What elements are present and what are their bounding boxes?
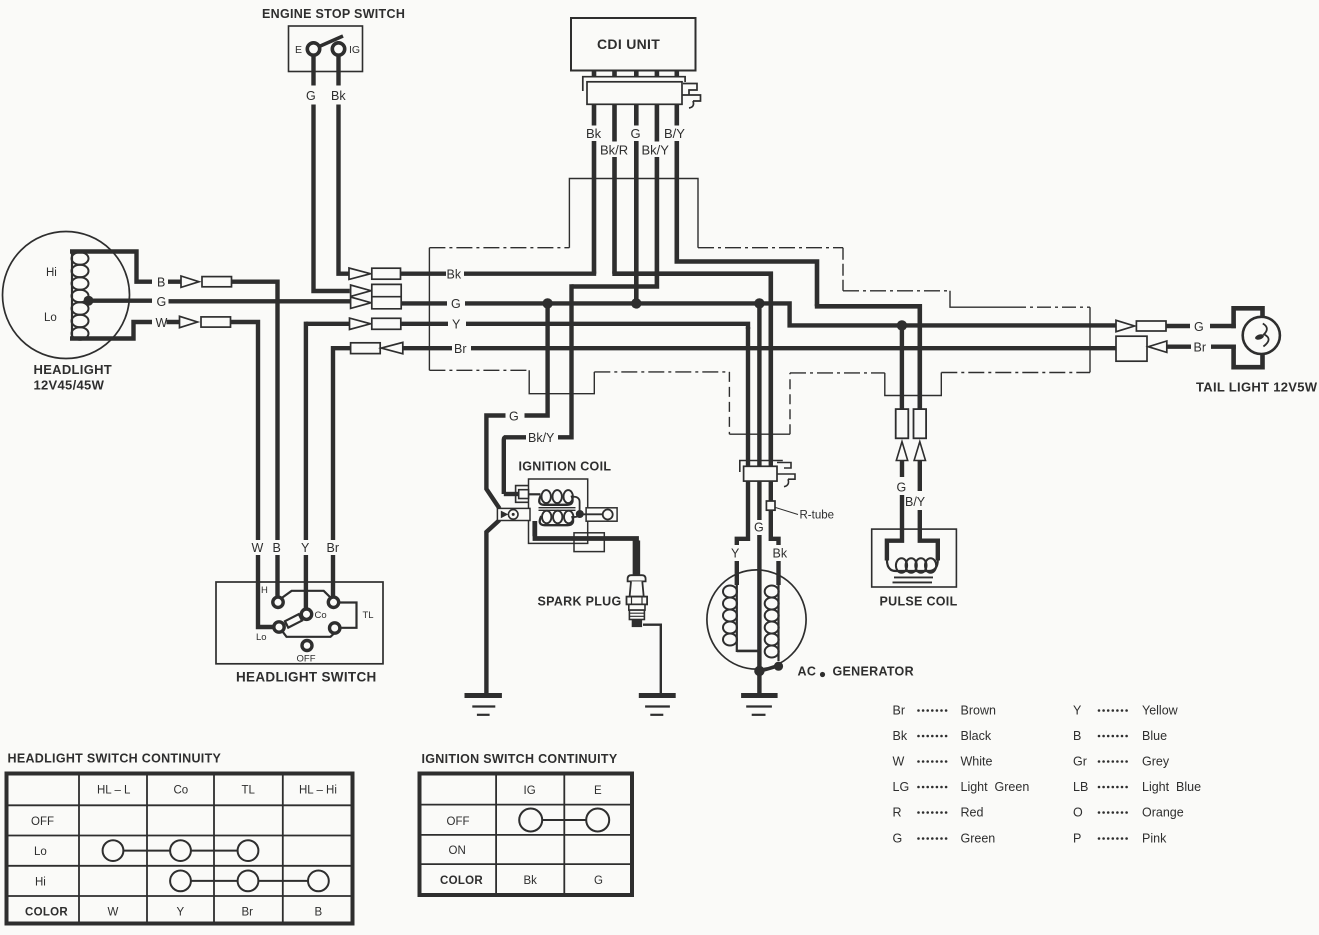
svg-text:Bk: Bk [331, 89, 346, 103]
ignition coil primary winding [529, 493, 541, 495]
wire G generator lead [757, 303, 761, 672]
connector arrow W [180, 316, 198, 327]
svg-text:OFF: OFF [297, 654, 316, 665]
svg-text:COLOR: COLOR [25, 907, 68, 919]
switch terminal Lo [274, 622, 284, 632]
switch link Lo bottom [282, 631, 335, 637]
wire Bk from engine stop switch [339, 56, 349, 274]
switch link TL bracket [338, 603, 356, 628]
svg-text:Light Green: Light Green [961, 780, 1030, 794]
generator junction link [761, 666, 779, 671]
svg-text:W: W [156, 316, 168, 330]
svg-text:TL: TL [363, 610, 374, 621]
spark plug hex [627, 597, 648, 605]
connector rect Bk (center) [372, 268, 401, 279]
wire Bk/Y into terminal [504, 492, 518, 496]
svg-text:O: O [1073, 806, 1083, 820]
CDI wire Bk (pin1) [592, 104, 597, 273]
wire Br to switch [331, 346, 335, 598]
R-tube pointer [776, 508, 799, 515]
svg-text:12V45/45W: 12V45/45W [34, 378, 105, 393]
CDI unit box [571, 18, 696, 71]
svg-text:Black: Black [961, 729, 992, 743]
junction dot G-ignition [542, 298, 552, 308]
ignition coil secondary winding [542, 511, 573, 524]
connector arrow Br (tail) [1148, 341, 1167, 352]
OFF continuity line [531, 819, 598, 821]
ignition coil mounting bar [497, 508, 530, 520]
svg-text:Yellow: Yellow [1142, 704, 1179, 718]
switch terminal OFF [302, 641, 312, 651]
svg-text:IG: IG [524, 785, 536, 797]
harness boundary lower [428, 248, 430, 371]
engine stop switch terminal E [307, 43, 319, 55]
CDI pin stubs [594, 71, 677, 78]
wire Bk/R to generator [612, 272, 773, 461]
ground (spark plug) [639, 693, 676, 698]
svg-text:E: E [594, 785, 602, 797]
mounting lug eyelet [508, 510, 518, 520]
wire Bk generator lead [769, 458, 779, 585]
svg-text:Y: Y [731, 547, 740, 561]
wire G to tail light [1166, 324, 1236, 328]
svg-text:P: P [1073, 832, 1081, 846]
spark plug cap [628, 575, 646, 581]
wire G pulse lead [900, 325, 904, 409]
connector rect Y (center) [372, 318, 401, 329]
svg-text:B: B [315, 907, 323, 919]
svg-text:Br: Br [454, 342, 467, 356]
wire G bus (headlight to connector) [89, 299, 352, 304]
headlight switch continuity table [7, 774, 353, 924]
svg-text:PULSE COIL: PULSE COIL [880, 595, 958, 609]
harness boundary upper [429, 247, 569, 249]
svg-text:IG: IG [349, 44, 360, 56]
svg-text:CDI UNIT: CDI UNIT [597, 36, 660, 52]
svg-text:G: G [1194, 320, 1204, 334]
svg-text:Br: Br [893, 704, 906, 718]
svg-text:Brown: Brown [961, 704, 996, 718]
tail light filament [1263, 324, 1269, 347]
svg-text:B: B [1073, 729, 1081, 743]
svg-text:Bk/Y: Bk/Y [528, 431, 555, 445]
switch terminal Co [301, 609, 311, 619]
ignition coil HT terminal bar [586, 508, 617, 521]
svg-text:Light Blue: Light Blue [1142, 780, 1201, 794]
headlight coil loops [72, 252, 89, 339]
svg-text:B/Y: B/Y [905, 495, 926, 509]
wire Bk bus [401, 272, 597, 276]
secondary to spark plug cable [533, 521, 639, 539]
svg-text:OFF: OFF [447, 816, 470, 828]
svg-text:Bk: Bk [586, 126, 602, 141]
svg-text:R: R [893, 806, 902, 820]
Hi continuity circles [170, 871, 191, 892]
svg-text:Bk: Bk [893, 729, 908, 743]
generator connector body [744, 466, 777, 481]
svg-text:G: G [509, 409, 519, 423]
svg-text:W: W [108, 907, 119, 919]
svg-text:Lo: Lo [44, 312, 57, 324]
svg-text:Lo: Lo [34, 846, 47, 858]
headlight G junction dot [84, 296, 94, 306]
svg-text:R-tube: R-tube [800, 510, 835, 522]
OFF continuity circles [519, 809, 542, 832]
wire Y bus [306, 322, 750, 329]
svg-text:Y: Y [301, 541, 310, 555]
connector rect Br (tail) [1116, 336, 1147, 361]
pulse coil box [872, 529, 957, 587]
pulse coil core [893, 577, 934, 582]
wire G from engine stop switch [314, 56, 350, 292]
mounting lug arrow [501, 511, 509, 519]
svg-text:Hi: Hi [35, 876, 46, 888]
svg-text:Bk/R: Bk/R [600, 143, 628, 158]
headlight switch box [216, 582, 383, 664]
svg-text:G: G [893, 832, 903, 846]
spark plug tip [632, 620, 642, 628]
ignition coil box [529, 479, 588, 543]
generator connector latch [777, 463, 795, 487]
svg-text:IGNITION COIL: IGNITION COIL [519, 460, 612, 474]
pulse G connector arrow [896, 442, 907, 461]
spark plug ground wire [643, 625, 661, 694]
connector arrow G (tail) [1116, 320, 1135, 331]
generator left coil bottom link [737, 650, 760, 653]
wire G pulse lower [887, 461, 904, 561]
svg-text:G: G [306, 89, 316, 103]
switch terminal Hi [273, 597, 283, 607]
svg-text:G: G [754, 521, 764, 535]
spark plug thread [629, 610, 644, 619]
svg-text:Blue: Blue [1142, 729, 1167, 743]
Lo continuity circles [103, 840, 124, 861]
svg-text:Red: Red [961, 806, 984, 820]
svg-text:AC: AC [798, 665, 817, 679]
connector double rect G (center) [372, 284, 401, 308]
svg-text:B: B [157, 276, 165, 290]
connector arrow Bk (center) [349, 268, 371, 279]
CDI wire G (pin3) [634, 104, 639, 303]
wire G down to ignition coil [484, 303, 550, 694]
svg-text:G: G [897, 481, 907, 495]
wire Br bus [333, 346, 1116, 350]
wire B to switch [168, 280, 278, 599]
svg-text:B: B [273, 541, 281, 555]
svg-text:Br: Br [242, 907, 254, 919]
headlight coil spine [71, 251, 73, 339]
spark plug insulator [630, 581, 644, 596]
tail light bulb [1243, 317, 1280, 354]
ignition coil core [539, 508, 576, 511]
svg-text:TAIL LIGHT 12V5W: TAIL LIGHT 12V5W [1196, 380, 1318, 395]
svg-text:LG: LG [893, 780, 910, 794]
svg-text:E: E [295, 44, 302, 56]
svg-text:LB: LB [1073, 780, 1088, 794]
svg-text:GENERATOR: GENERATOR [833, 665, 914, 679]
ignition switch continuity table [420, 774, 633, 896]
ignition coil primary terminal [516, 486, 529, 503]
CDI connector latch [682, 84, 701, 109]
svg-text:W: W [893, 755, 905, 769]
generator right coil [777, 585, 779, 661]
svg-text:Lo: Lo [256, 632, 267, 643]
ground (generator) [741, 693, 778, 698]
wire B/Y pulse lower [918, 461, 938, 561]
primary-secondary junction [573, 497, 603, 517]
svg-text:Bk: Bk [524, 875, 538, 887]
HT terminal circle [603, 510, 613, 520]
svg-text:Br: Br [1194, 341, 1207, 355]
pulse coil winding [896, 558, 936, 572]
switch terminal TL bottom [330, 623, 340, 633]
connector rect Br (center) [351, 343, 381, 354]
pulse B/Y connector arrow [914, 442, 925, 461]
wire Y generator lead [737, 327, 748, 585]
ground (ignition coil) [465, 693, 502, 698]
wire Bk/Y down to ignition coil [504, 284, 574, 494]
wire B/Y pulse lead [918, 407, 922, 411]
generator main junction dot [754, 666, 764, 676]
svg-text:G: G [631, 126, 641, 141]
wire B from headlight Hi [70, 252, 152, 284]
connector arrow Br (center) [381, 342, 403, 353]
svg-text:HEADLIGHT: HEADLIGHT [34, 362, 113, 377]
generator ground lead [757, 671, 761, 694]
svg-text:G: G [451, 297, 461, 311]
junction dot G-pulse [897, 320, 907, 330]
svg-text:G: G [594, 875, 603, 887]
Hi continuity line [181, 880, 319, 882]
svg-text:Co: Co [174, 785, 189, 797]
junction dot G-CDI [631, 298, 641, 308]
color legend [893, 704, 1202, 846]
connector double arrow G (center) [351, 285, 371, 308]
svg-text:SPARK PLUG: SPARK PLUG [538, 595, 622, 609]
svg-text:Gr: Gr [1073, 755, 1087, 769]
tail light housing [1234, 308, 1263, 367]
junction dot G-generator [754, 298, 764, 308]
switch link Hi to TL [281, 591, 332, 599]
svg-text:W: W [252, 541, 264, 555]
AC generator circle [707, 570, 806, 669]
svg-text:COLOR: COLOR [440, 875, 483, 887]
svg-text:Bk: Bk [773, 547, 788, 561]
svg-text:Pink: Pink [1142, 832, 1167, 846]
pulse B/Y connector rect [914, 409, 927, 438]
switch wiper contact [285, 614, 302, 627]
CDI wire Bk/Y (pin4) [572, 104, 660, 288]
svg-text:Br: Br [327, 541, 340, 555]
CDI wire Bk/R (pin2) [612, 104, 617, 273]
switch terminal TL top [328, 597, 338, 607]
svg-text:TL: TL [242, 785, 256, 797]
svg-text:Hi: Hi [46, 267, 57, 279]
svg-text:Orange: Orange [1142, 806, 1184, 820]
pulse G connector rect [896, 409, 909, 438]
wire W to switch [167, 320, 276, 627]
svg-text:HEADLIGHT SWITCH: HEADLIGHT SWITCH [236, 670, 377, 685]
headlight circle [3, 232, 130, 359]
svg-text:White: White [961, 755, 993, 769]
ignition coil bracket [574, 533, 604, 552]
svg-text:HL – Hi: HL – Hi [299, 785, 337, 797]
svg-text:HEADLIGHT SWITCH CONTINUITY: HEADLIGHT SWITCH CONTINUITY [8, 752, 222, 766]
connector rect G (tail) [1136, 321, 1166, 331]
svg-text:Bk/Y: Bk/Y [642, 143, 670, 158]
svg-text:B/Y: B/Y [664, 126, 685, 141]
generator left coil [736, 585, 738, 652]
Lo continuity line [113, 850, 248, 852]
svg-text:Grey: Grey [1142, 755, 1170, 769]
svg-text:ON: ON [449, 845, 466, 857]
svg-text:G: G [157, 295, 167, 309]
wire G bus (center to right) [401, 301, 1116, 327]
svg-text:HL – L: HL – L [97, 785, 131, 797]
R-tube body [766, 501, 775, 510]
svg-text:Y: Y [452, 318, 461, 332]
svg-text:Co: Co [315, 610, 327, 621]
connector arrow B [181, 276, 199, 287]
engine stop switch lever [314, 36, 344, 49]
wire Br to tail light [1167, 345, 1236, 349]
wire W from headlight Lo [70, 320, 152, 339]
svg-text:H: H [261, 585, 268, 596]
connector rect B [202, 277, 232, 287]
engine stop switch terminal IG [332, 43, 344, 55]
svg-text:Bk: Bk [447, 268, 462, 282]
generator connector shell [740, 461, 783, 473]
generator right coil junction dot [774, 662, 783, 671]
wire B/Y to pulse coil [815, 304, 922, 409]
svg-text:Green: Green [961, 832, 996, 846]
connector rect W [201, 317, 231, 327]
svg-text:ENGINE STOP SWITCH: ENGINE STOP SWITCH [262, 7, 405, 21]
CDI connector body [587, 82, 682, 105]
spark plug shoulder [629, 604, 645, 610]
svg-text:IGNITION SWITCH CONTINUITY: IGNITION SWITCH CONTINUITY [422, 752, 618, 766]
wire Y to switch [304, 322, 308, 610]
CDI connector outer shell [583, 77, 685, 91]
CDI wire B/Y (pin5) [675, 104, 820, 306]
svg-text:OFF: OFF [31, 816, 54, 828]
svg-text:Y: Y [1073, 704, 1082, 718]
connector arrow Y (center) [350, 318, 371, 329]
legend dots [917, 709, 1128, 840]
engine stop switch box [289, 26, 363, 72]
svg-text:Y: Y [177, 907, 185, 919]
